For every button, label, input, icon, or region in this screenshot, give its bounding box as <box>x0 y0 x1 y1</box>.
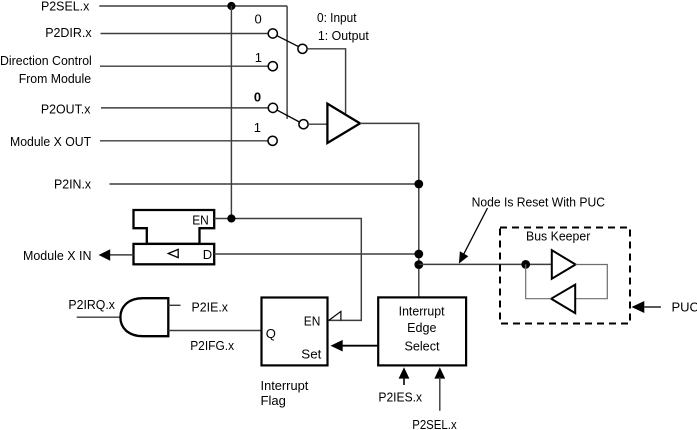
svg-text:D: D <box>203 247 212 262</box>
svg-text:Module X IN: Module X IN <box>23 248 92 263</box>
svg-text:Set: Set <box>301 346 321 361</box>
arrow Set input <box>331 340 343 352</box>
svg-text:Interrupt: Interrupt <box>399 303 445 318</box>
arrow P2SEL.x into edge select <box>434 367 445 378</box>
wire buffer output to pad node <box>360 123 419 296</box>
wire P2IFG.x <box>168 330 261 332</box>
node junction pad node to bus keeper <box>414 260 423 269</box>
node junction P2SEL top <box>227 2 235 10</box>
mux contact Module X OUT <box>268 136 277 145</box>
wire bus keeper feedback left <box>526 264 552 298</box>
wire Direction Control From Module <box>100 65 268 67</box>
node junction latch EN / P2SEL <box>227 214 235 222</box>
arrow P2IES.x into edge select <box>399 367 410 378</box>
bus keeper dashed box <box>500 228 630 324</box>
svg-text:P2IES.x: P2IES.x <box>378 390 422 405</box>
wire Module X OUT <box>100 140 268 142</box>
svg-text:P2DIR.x: P2DIR.x <box>45 25 92 40</box>
svg-text:0: 0 <box>254 12 261 27</box>
wire bus keeper feedback right <box>575 265 607 299</box>
svg-text:From Module: From Module <box>19 71 91 86</box>
wire pad node to bus keeper <box>419 263 552 265</box>
output buffer (tri-state driver) <box>327 104 360 143</box>
svg-text:P2IFG.x: P2IFG.x <box>190 338 234 353</box>
wire Module X IN <box>110 254 134 256</box>
node junction D on pad node <box>414 250 423 259</box>
wire P2IES.x <box>403 377 405 385</box>
wire PUC <box>644 306 661 308</box>
wire P2SEL vertical to latch EN <box>230 6 232 219</box>
mux contact P2DIR <box>268 29 277 38</box>
wire P2IRQ.x <box>77 316 121 318</box>
svg-text:P2SEL.x: P2SEL.x <box>41 0 90 14</box>
node junction bus keeper input <box>521 260 530 269</box>
svg-text:1: 1 <box>255 50 262 65</box>
wire D input rail <box>214 253 419 255</box>
svg-text:0: 0 <box>254 90 261 105</box>
wire P2DIR.x <box>101 33 269 35</box>
pointer line to node <box>463 208 488 257</box>
mux pole direction mux <box>298 44 307 53</box>
wire P2SEL branch down to muxes <box>286 6 288 119</box>
svg-text:1: Output: 1: Output <box>318 28 369 43</box>
latch inverter triangle <box>168 249 178 257</box>
arrow Module X IN <box>99 249 111 260</box>
arrow pointer to node <box>459 251 468 263</box>
wire direction mux pole to buffer enable <box>307 49 346 114</box>
svg-text:PUC: PUC <box>672 300 697 315</box>
wire P2IE.x stub <box>168 304 180 306</box>
latch Module X IN (EN/D) upper body <box>134 210 215 244</box>
svg-text:Interrupt: Interrupt <box>261 378 309 393</box>
interrupt edge select box <box>378 297 466 365</box>
svg-text:Direction Control: Direction Control <box>0 53 92 68</box>
svg-text:1: 1 <box>254 120 261 135</box>
svg-text:EN: EN <box>192 212 209 227</box>
wire latch EN to interrupt flag EN <box>214 219 361 321</box>
svg-text:P2IRQ.x: P2IRQ.x <box>68 297 115 312</box>
mux contact Direction Control <box>268 62 277 71</box>
arrow PUC into bus keeper <box>632 301 645 313</box>
wire P2OUT.x <box>101 107 268 109</box>
svg-text:0: Input: 0: Input <box>317 10 357 25</box>
mux lever output mux <box>277 110 299 122</box>
wire output mux pole to buffer input <box>308 123 327 125</box>
svg-text:Node Is Reset With PUC: Node Is Reset With PUC <box>472 194 605 209</box>
node junction P2IN <box>414 180 423 189</box>
svg-text:P2IE.x: P2IE.x <box>192 300 229 315</box>
mux pole output mux <box>299 120 308 129</box>
svg-text:Module X OUT: Module X OUT <box>10 134 91 149</box>
wire Set from interrupt edge select <box>342 345 378 347</box>
bus keeper feedback buffer <box>551 285 575 314</box>
latch Module X IN lower body <box>134 244 215 264</box>
wire P2SEL.x horizontal <box>99 5 287 7</box>
wire P2IN.x <box>110 183 419 185</box>
svg-text:EN: EN <box>304 314 321 329</box>
flag EN edge-trigger symbol <box>329 311 341 320</box>
AND gate interrupt request (faces left) <box>120 298 168 336</box>
svg-text:Q: Q <box>266 326 276 341</box>
mux contact P2OUT <box>268 103 277 112</box>
svg-text:Edge: Edge <box>407 320 436 335</box>
svg-text:P2OUT.x: P2OUT.x <box>41 102 91 117</box>
bus keeper forward buffer <box>552 250 576 279</box>
wire P2SEL.x bottom <box>439 377 441 411</box>
svg-text:Bus Keeper: Bus Keeper <box>526 228 591 243</box>
svg-text:P2IN.x: P2IN.x <box>54 177 92 192</box>
svg-text:P2SEL.x: P2SEL.x <box>412 417 457 430</box>
mux lever direction mux <box>277 36 299 47</box>
svg-text:Select: Select <box>404 339 439 354</box>
interrupt flag box <box>262 298 328 366</box>
svg-text:Flag: Flag <box>261 393 286 408</box>
